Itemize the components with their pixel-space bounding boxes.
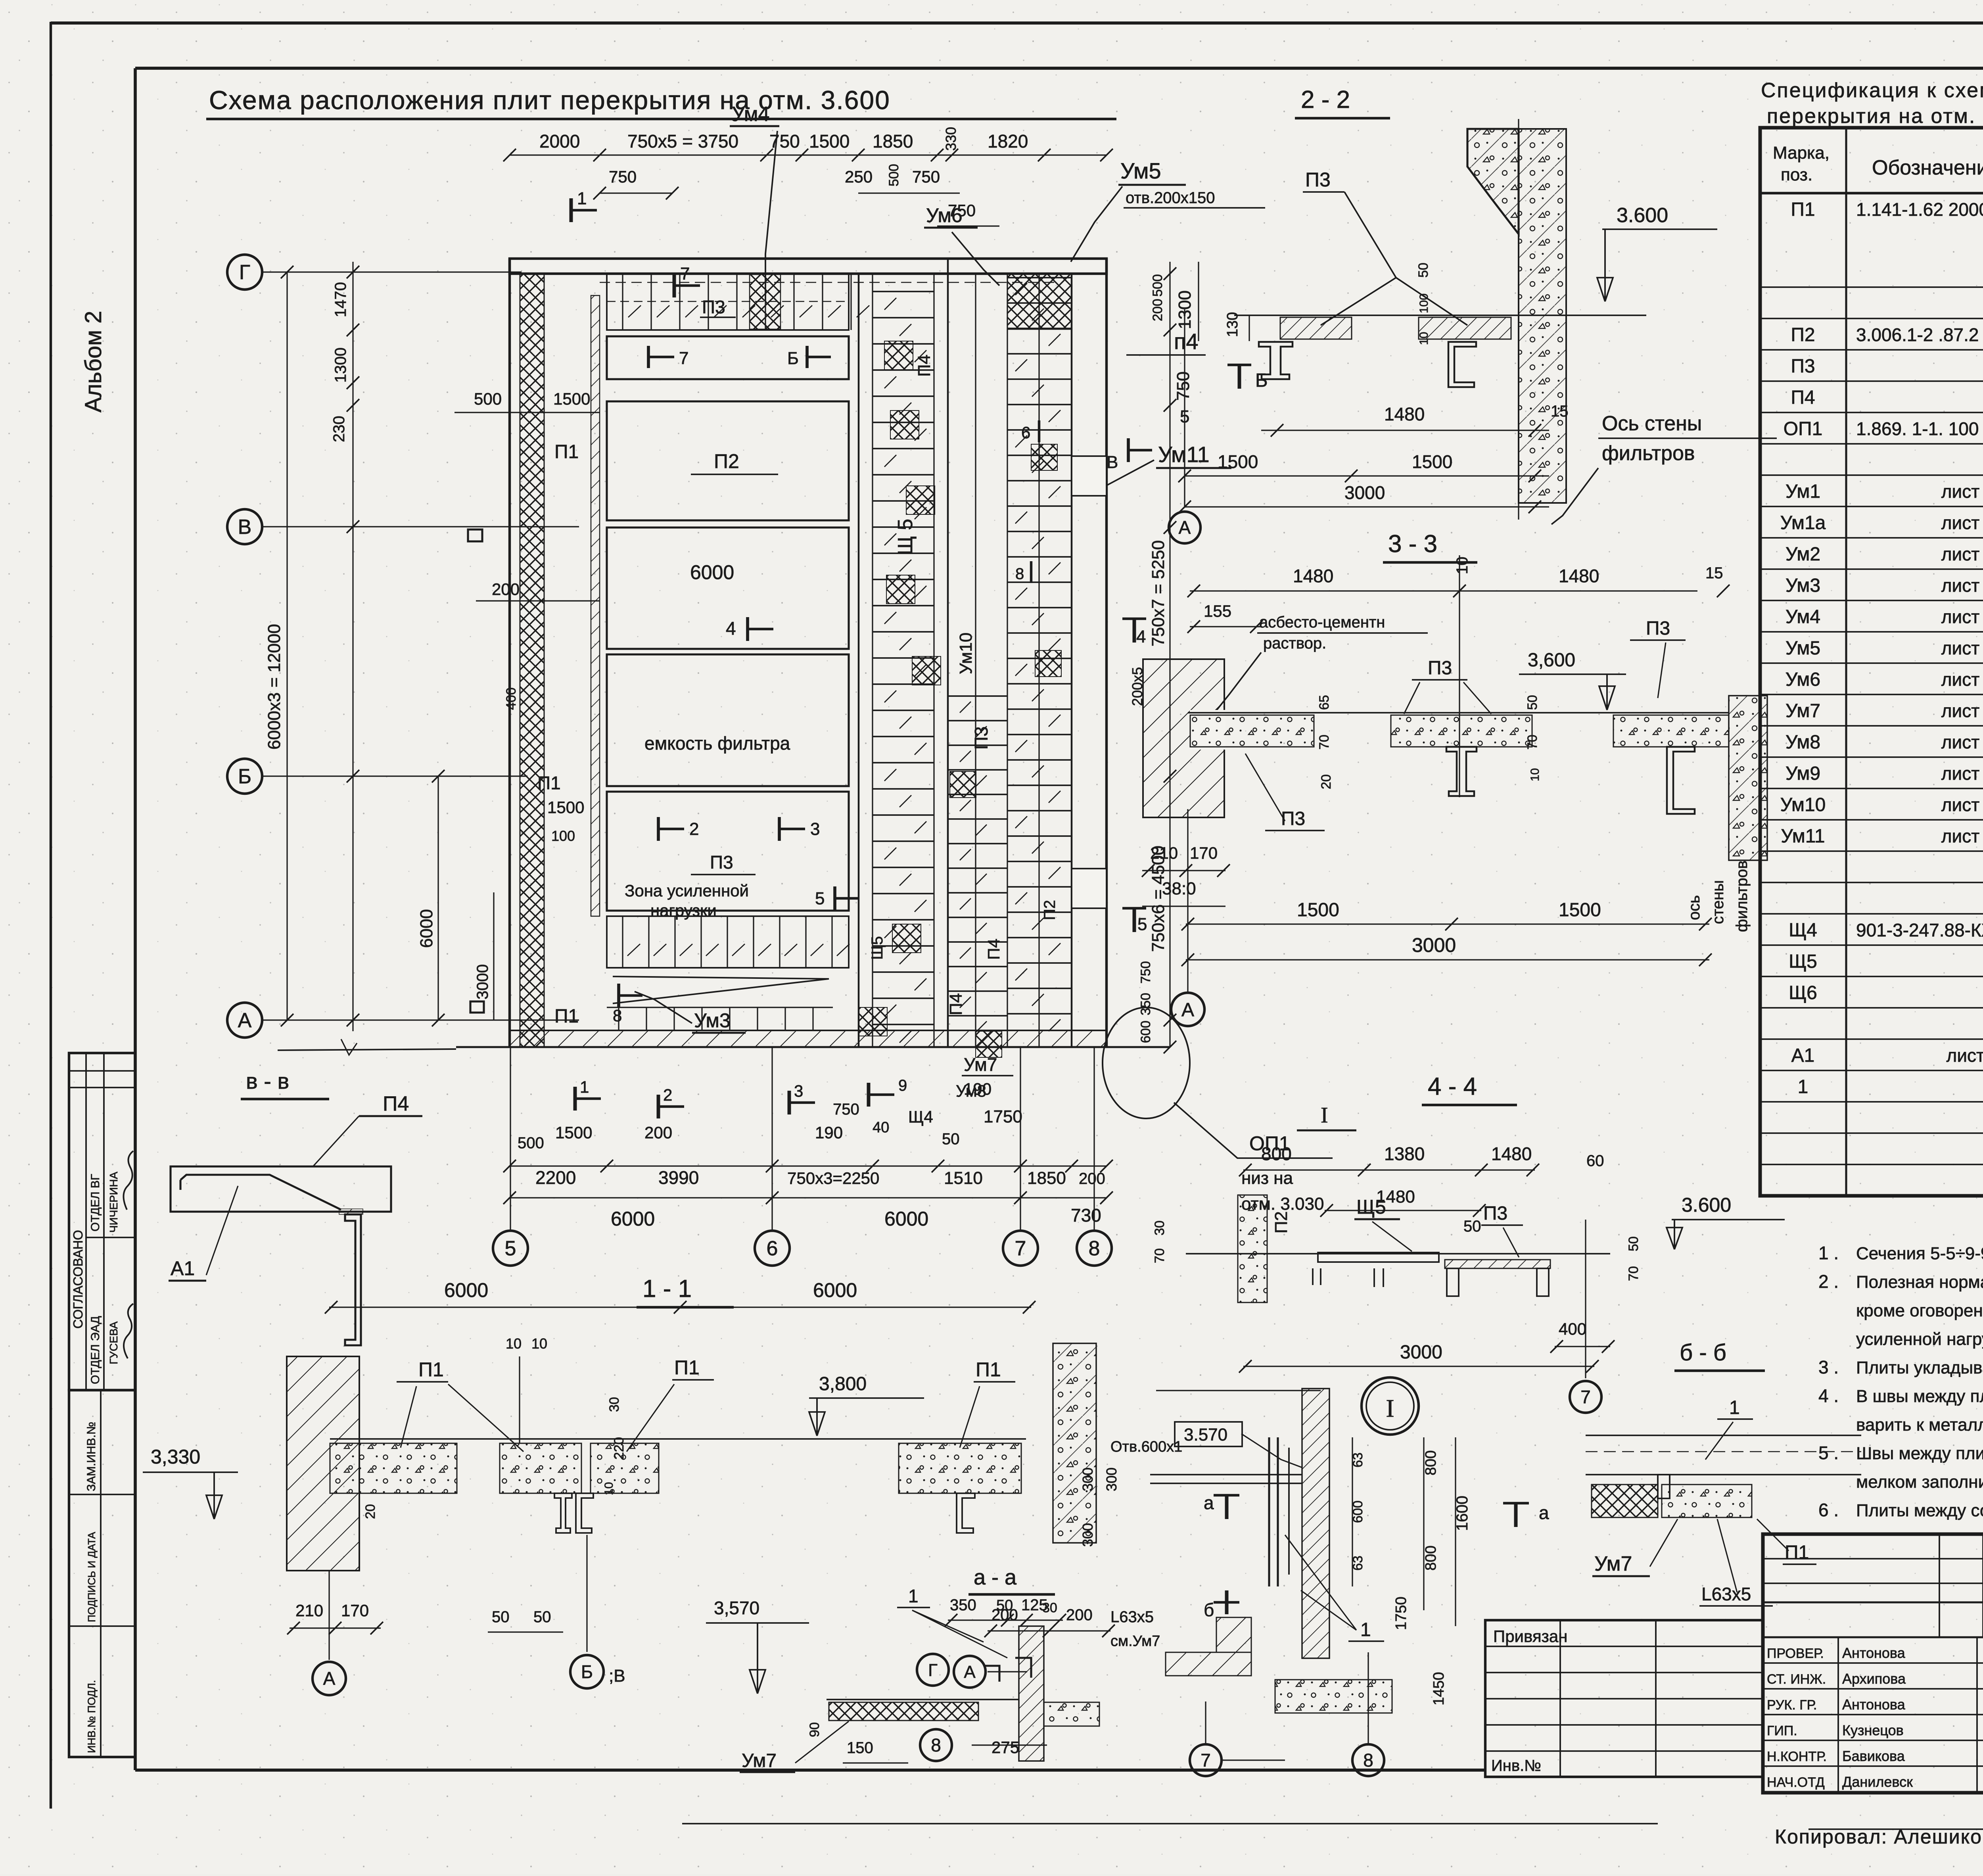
svg-text:а: а <box>1539 1502 1549 1523</box>
svg-text:Щ6: Щ6 <box>1789 982 1817 1003</box>
svg-text:Копировал: Алешикова: Копировал: Алешикова <box>1775 1826 1983 1848</box>
svg-text:поз.: поз. <box>1781 165 1812 184</box>
right strip xhatch patches <box>950 771 976 798</box>
svg-text:Ум9: Ум9 <box>1785 763 1820 784</box>
2-2 slab left <box>1280 317 1352 339</box>
svg-text:ПРОВЕР.: ПРОВЕР. <box>1767 1646 1824 1661</box>
svg-text:П1: П1 <box>418 1358 444 1381</box>
svg-text:210: 210 <box>1150 844 1178 862</box>
room box E <box>607 792 849 911</box>
2-2 channel beam <box>1448 342 1476 387</box>
svg-text:1500: 1500 <box>553 389 590 408</box>
1-1 beam right <box>957 1493 975 1533</box>
svg-text:5: 5 <box>505 1237 516 1260</box>
svg-text:Данилевск: Данилевск <box>1842 1774 1913 1790</box>
svg-text:1 - 1: 1 - 1 <box>642 1275 692 1302</box>
detail I mark a upper <box>1214 1494 1239 1496</box>
left dim chain line <box>352 262 353 1031</box>
svg-text:600: 600 <box>1138 1020 1153 1043</box>
svg-text:Ум7: Ум7 <box>742 1750 777 1771</box>
svg-text:155: 155 <box>1204 602 1231 620</box>
svg-text:70: 70 <box>1317 735 1332 750</box>
plan left wall hatch strip <box>520 274 544 1047</box>
svg-text:1470: 1470 <box>332 282 349 317</box>
svg-text:лист 40: лист 40 <box>1941 763 1983 784</box>
top strip xhatch patch <box>750 274 781 329</box>
2-2 dim chain 1480 <box>1261 430 1549 431</box>
svg-text:L63х5: L63х5 <box>1110 1608 1154 1626</box>
right substrip rungs lower <box>948 695 1007 697</box>
svg-text:Ум2: Ум2 <box>1785 544 1820 565</box>
leader Um5 <box>1071 186 1122 262</box>
ladder rungs <box>873 291 934 292</box>
1-1 slab seg4 <box>899 1443 1021 1493</box>
svg-text:3: 3 <box>810 819 820 839</box>
svg-text:200: 200 <box>1079 1170 1105 1187</box>
grid bubble 7 <box>1003 1231 1038 1266</box>
svg-text:стены: стены <box>1709 880 1727 924</box>
stamp soglasovano box <box>69 1053 135 1390</box>
svg-text:Антонова: Антонова <box>1842 1696 1906 1713</box>
svg-text:фильтров: фильтров <box>1733 861 1751 932</box>
svg-text:6000: 6000 <box>417 909 436 948</box>
svg-text:220: 220 <box>612 1437 627 1460</box>
4-4 axis line and bubble 7 <box>1585 1220 1586 1378</box>
svg-text:500: 500 <box>1150 274 1165 297</box>
svg-text:100: 100 <box>551 828 575 844</box>
svg-text:6: 6 <box>767 1237 778 1260</box>
svg-text:П3: П3 <box>702 297 725 317</box>
title block row2 line <box>1763 1636 1983 1638</box>
spec header underline <box>1764 99 1983 100</box>
svg-text:I: I <box>1321 1103 1328 1128</box>
detail I bottom slab band <box>1166 1652 1251 1676</box>
3-3 slab seg2 <box>1391 715 1532 747</box>
svg-text:А: А <box>323 1668 336 1689</box>
svg-text:3 - 3: 3 - 3 <box>1388 530 1437 558</box>
mark 7 in box A <box>648 356 674 358</box>
svg-text:1850: 1850 <box>1027 1168 1066 1188</box>
signature squiggle 1 <box>123 1151 133 1210</box>
leader OP1 <box>1174 1103 1333 1158</box>
1-1 slab seg3 <box>591 1443 659 1493</box>
right dim chain 1 <box>1169 262 1170 1047</box>
svg-text:Щ4: Щ4 <box>1789 920 1817 941</box>
svg-text:1300: 1300 <box>332 347 349 383</box>
svg-text:750: 750 <box>1138 961 1153 984</box>
svg-text:в - в: в - в <box>246 1068 289 1093</box>
svg-text:750х3=2250: 750х3=2250 <box>787 1169 879 1187</box>
svg-text:8: 8 <box>613 1006 622 1025</box>
svg-text:1: 1 <box>1798 1076 1808 1097</box>
svg-text:190: 190 <box>815 1123 843 1142</box>
svg-text:перекрытия на отм. 3. 600: перекрытия на отм. 3. 600 <box>1767 105 1983 128</box>
svg-text:Ум4: Ум4 <box>732 103 769 126</box>
svg-text:275: 275 <box>991 1738 1019 1757</box>
svg-text:Ум11: Ум11 <box>1158 442 1210 467</box>
svg-text:Б: Б <box>581 1661 593 1682</box>
grid bubble B <box>227 759 262 794</box>
svg-text:1: 1 <box>580 1078 589 1096</box>
grid bubble V <box>227 509 262 544</box>
a-a anchor bracket <box>984 1666 999 1682</box>
svg-text:10: 10 <box>506 1335 522 1352</box>
svg-text:2: 2 <box>663 1086 672 1104</box>
svg-text:8: 8 <box>931 1735 941 1755</box>
svg-text:1480: 1480 <box>1559 566 1599 586</box>
svg-text:200: 200 <box>1066 1606 1093 1624</box>
svg-text:Полезная нормативная нагру: Полезная нормативная нагрузка на перекры… <box>1856 1272 1983 1292</box>
svg-text:В швы между плитами заложит: В швы между плитами заложить анкера А1 и… <box>1856 1387 1983 1406</box>
svg-text:750: 750 <box>833 1101 859 1118</box>
grid bubble G <box>227 255 262 290</box>
title underline <box>206 118 1116 120</box>
svg-text:500: 500 <box>518 1134 544 1152</box>
grid axis 6 line <box>771 1047 773 1230</box>
svg-text:А1: А1 <box>171 1257 195 1279</box>
svg-text:230: 230 <box>330 416 348 442</box>
svg-text:7: 7 <box>1201 1750 1211 1770</box>
svg-text:лист 39: лист 39 <box>1941 512 1983 533</box>
detail I mark right <box>1297 1129 1356 1131</box>
grid axis line B <box>262 775 527 777</box>
svg-text:П2: П2 <box>1791 324 1815 345</box>
svg-text:Г: Г <box>239 261 250 284</box>
4-4 dim 3000 <box>1243 1366 1594 1367</box>
plan bottom wall <box>510 1030 1107 1047</box>
svg-text:50: 50 <box>1463 1218 1481 1235</box>
svg-text:Щ5: Щ5 <box>869 936 886 960</box>
svg-text:ЗАМ.ИНВ.№: ЗАМ.ИНВ.№ <box>85 1422 98 1491</box>
svg-text:2200: 2200 <box>535 1167 576 1188</box>
svg-text:ИНВ.№ ПОДЛ.: ИНВ.№ ПОДЛ. <box>86 1680 98 1753</box>
section mark 2 bottom <box>657 1095 660 1118</box>
svg-text:4 - 4: 4 - 4 <box>1428 1073 1477 1100</box>
v-v slab bar <box>171 1166 391 1212</box>
svg-text:П2: П2 <box>1041 900 1059 920</box>
1-1 bubble B V <box>586 1535 587 1652</box>
svg-text:Плиты между собой связать че: Плиты между собой связать через петли вя… <box>1856 1501 1983 1520</box>
1-1 left wall <box>287 1356 359 1571</box>
svg-text:5: 5 <box>1137 915 1147 934</box>
plan top wall inner dashed <box>600 282 1055 283</box>
svg-text:Инв.№: Инв.№ <box>1491 1757 1541 1774</box>
svg-text:1500: 1500 <box>809 131 850 152</box>
3-3 dim 3000 <box>1186 959 1709 960</box>
svg-text:П1: П1 <box>1791 199 1815 220</box>
svg-text:50: 50 <box>533 1608 551 1626</box>
inner frame top <box>135 67 1983 70</box>
svg-text:лист 39: лист 39 <box>1941 481 1983 502</box>
svg-text:П3: П3 <box>1483 1203 1507 1224</box>
svg-text:Альбом 2: Альбом 2 <box>81 311 106 412</box>
svg-text:Ось стены: Ось стены <box>1602 412 1702 435</box>
svg-text:Ум7: Ум7 <box>1594 1552 1632 1575</box>
svg-text:3,800: 3,800 <box>819 1373 867 1395</box>
svg-text:емкость фильтра: емкость фильтра <box>644 733 790 754</box>
3-3 axis bubble A <box>1187 809 1188 992</box>
2-2 dim chain 3000 <box>1185 506 1549 507</box>
2-2 concrete wall <box>1519 129 1566 503</box>
svg-text:3000: 3000 <box>1344 482 1385 503</box>
svg-text:2000: 2000 <box>539 131 580 152</box>
2-2 slab top line <box>1234 315 1646 316</box>
svg-text:200: 200 <box>492 580 520 598</box>
svg-text:2: 2 <box>689 819 699 839</box>
2-2 slab right <box>1419 317 1511 339</box>
svg-text:350: 350 <box>1138 993 1153 1015</box>
svg-text:Б: Б <box>1255 370 1268 391</box>
svg-text:50: 50 <box>492 1608 510 1626</box>
svg-text:20: 20 <box>1319 774 1334 789</box>
svg-text:4: 4 <box>1136 627 1146 646</box>
svg-text:Ум8: Ум8 <box>1785 732 1820 753</box>
signature squiggle 2 <box>124 1304 133 1358</box>
svg-text:1480: 1480 <box>1491 1143 1532 1164</box>
svg-text:6000х3 = 12000: 6000х3 = 12000 <box>265 624 284 750</box>
2-2 axis bubble A <box>1184 309 1185 508</box>
svg-text:15: 15 <box>1705 564 1723 582</box>
svg-text:800: 800 <box>1261 1143 1292 1164</box>
svg-text:лист 39: лист 39 <box>1941 826 1983 846</box>
bottom sub chain <box>510 1122 1107 1123</box>
top dim chain main <box>510 154 1107 155</box>
svg-text:кроме оговоренной зоны, —: кроме оговоренной зоны, — 3,92 к Па , в … <box>1856 1301 1983 1320</box>
a-a xhatch band Um7 <box>829 1702 978 1721</box>
svg-text:50: 50 <box>1416 263 1431 278</box>
svg-text:8: 8 <box>1089 1237 1100 1260</box>
svg-text:1480: 1480 <box>1384 404 1425 424</box>
svg-text:Ум1а: Ум1а <box>1780 512 1826 533</box>
svg-text:8: 8 <box>1363 1750 1373 1770</box>
svg-text:500: 500 <box>886 164 901 186</box>
svg-text:6000: 6000 <box>690 561 734 583</box>
detail I slab lines <box>1150 1474 1302 1475</box>
spec table column lines <box>1845 128 1847 1196</box>
4-4 slab P3 band <box>1445 1260 1550 1268</box>
svg-text:Ум7: Ум7 <box>964 1054 997 1075</box>
svg-text:а - а: а - а <box>974 1565 1017 1589</box>
svg-text:лист 40: лист 40 <box>1941 669 1983 690</box>
svg-text:;В: ;В <box>609 1666 625 1686</box>
svg-text:отв.200х150: отв.200х150 <box>1126 189 1215 207</box>
svg-text:3 .: 3 . <box>1818 1357 1839 1377</box>
svg-text:ОТДЕЛ ЭАД: ОТДЕЛ ЭАД <box>89 1316 102 1384</box>
svg-text:П4: П4 <box>915 355 934 377</box>
leader Um4 <box>765 131 777 301</box>
svg-text:300: 300 <box>1103 1467 1120 1491</box>
svg-text:3.600: 3.600 <box>1682 1194 1731 1216</box>
svg-text:асбесто-цементн: асбесто-цементн <box>1259 614 1385 631</box>
svg-text:П1: П1 <box>554 1006 579 1027</box>
b-b concrete patch <box>1662 1485 1752 1517</box>
svg-text:низ на: низ на <box>1241 1168 1293 1188</box>
4-4 slab top line <box>1186 1253 1610 1255</box>
svg-text:400: 400 <box>504 687 519 710</box>
svg-text:РУК. ГР.: РУК. ГР. <box>1767 1698 1817 1713</box>
svg-text:Ум4: Ум4 <box>1785 606 1820 627</box>
svg-text:раствор.: раствор. <box>1263 635 1326 652</box>
svg-text:мелком заполнителе.: мелком заполнителе. <box>1856 1472 1983 1492</box>
2-2 I-beam <box>1259 342 1293 379</box>
svg-text:8: 8 <box>1015 565 1024 583</box>
svg-text:Ум6: Ум6 <box>926 204 963 226</box>
v-v channel <box>345 1214 361 1345</box>
room box B P2 <box>607 401 849 520</box>
svg-text:П3: П3 <box>1281 808 1305 829</box>
svg-text:1: 1 <box>908 1586 919 1606</box>
b-b xhatch patch <box>1592 1485 1658 1517</box>
svg-text:П1: П1 <box>674 1356 700 1379</box>
svg-text:ОП1: ОП1 <box>1784 418 1823 439</box>
svg-text:1750: 1750 <box>984 1107 1022 1126</box>
svg-text:1: 1 <box>1729 1397 1740 1418</box>
bottom chain row3 <box>510 1197 1107 1198</box>
svg-text:750: 750 <box>769 131 800 152</box>
svg-text:П3: П3 <box>971 726 991 750</box>
3-3 slab seg3 <box>1613 715 1729 747</box>
detail I bubbles 7 8 <box>1205 1701 1206 1743</box>
3-3 left wall slab notch <box>1190 710 1225 750</box>
svg-text:Г: Г <box>928 1660 938 1680</box>
svg-text:7: 7 <box>679 349 688 368</box>
svg-text:150: 150 <box>847 1739 873 1757</box>
svg-text:10: 10 <box>602 1482 616 1495</box>
svg-text:Архипова: Архипова <box>1842 1671 1906 1687</box>
grid axis line G <box>262 271 522 272</box>
svg-text:ЧИЧЕРИНА: ЧИЧЕРИНА <box>107 1172 120 1233</box>
svg-text:лист 40: лист 40 <box>1941 732 1983 752</box>
svg-text:3: 3 <box>794 1082 803 1100</box>
svg-text:В: В <box>238 516 252 539</box>
svg-text:Ум3: Ум3 <box>694 1009 731 1032</box>
3-3 channel right <box>1667 747 1695 814</box>
svg-text:ОТДЕЛ ВГ: ОТДЕЛ ВГ <box>89 1174 102 1231</box>
plan bottom edge extension left <box>278 1049 456 1050</box>
grid bubble A <box>227 1003 262 1038</box>
svg-text:А: А <box>964 1662 976 1682</box>
plan top-right xhatch patch <box>1007 274 1072 329</box>
svg-text:Обозначение: Обозначение <box>1872 156 1983 179</box>
section mark 4 right <box>1122 618 1146 620</box>
grid bubble 8 <box>1077 1231 1112 1266</box>
svg-text:3,570: 3,570 <box>714 1598 759 1618</box>
svg-text:L63х5: L63х5 <box>1701 1584 1751 1604</box>
svg-text:А: А <box>238 1009 252 1032</box>
svg-text:НАЧ.ОТД: НАЧ.ОТД <box>1767 1775 1825 1790</box>
b-b slab top dashed <box>1586 1435 1861 1436</box>
svg-text:I: I <box>1386 1394 1394 1422</box>
svg-text:Зона усиленной: Зона усиленной <box>625 881 749 900</box>
svg-text:800: 800 <box>1423 1546 1439 1571</box>
svg-text:Бавикова: Бавикова <box>1842 1748 1905 1764</box>
1-1 bubble A left <box>328 1571 330 1660</box>
room box D filter tank <box>607 654 849 786</box>
svg-text:4: 4 <box>726 618 736 639</box>
svg-text:10: 10 <box>1454 557 1471 575</box>
detail I mark b lower <box>1214 1601 1239 1604</box>
svg-text:1500: 1500 <box>1297 900 1339 921</box>
svg-text:1500: 1500 <box>1559 900 1601 921</box>
inner frame left <box>134 68 137 1770</box>
2-2 concrete wedge <box>1467 129 1519 234</box>
leader Um11 <box>1071 460 1154 496</box>
svg-text:70: 70 <box>1626 1266 1641 1281</box>
svg-text:170: 170 <box>341 1601 369 1620</box>
1-1 slab top line <box>330 1438 1026 1440</box>
svg-text:1 .: 1 . <box>1818 1243 1839 1263</box>
svg-text:Б: Б <box>787 349 799 368</box>
svg-text:варить к металлическим балка: варить к металлическим балкам (см. сеч. … <box>1856 1415 1983 1435</box>
svg-text:50: 50 <box>942 1130 960 1148</box>
svg-text:38:0: 38:0 <box>1162 879 1196 898</box>
svg-text:1750: 1750 <box>1393 1596 1410 1630</box>
svg-text:П4: П4 <box>383 1092 409 1115</box>
fold mark line lower <box>682 1823 1658 1824</box>
plan left wall inner line <box>509 274 510 1047</box>
svg-text:а: а <box>1204 1492 1214 1513</box>
svg-text:Ум10: Ум10 <box>956 633 976 674</box>
spec table header row line <box>1760 192 1983 194</box>
svg-text:лист 40: лист 40 <box>1941 638 1983 658</box>
svg-text:Ум6: Ум6 <box>1785 669 1820 690</box>
svg-text:П1: П1 <box>554 441 579 462</box>
svg-text:50: 50 <box>1626 1236 1641 1251</box>
svg-text:1820: 1820 <box>988 131 1028 152</box>
svg-text:1480: 1480 <box>1293 566 1333 586</box>
4-4 dim 1480 sub <box>1325 1210 1481 1211</box>
ladder strip verticals <box>858 274 859 1047</box>
svg-text:10: 10 <box>1528 768 1542 781</box>
svg-text:1.141-1.62 2000-06: 1.141-1.62 2000-06 <box>1856 199 1983 220</box>
grid axis line A <box>262 1019 579 1020</box>
detail I hatch square <box>1216 1617 1251 1652</box>
a-a bubble 8 <box>972 1744 1047 1746</box>
room box A <box>607 336 849 379</box>
svg-text:СОГЛАСОВАНО: СОГЛАСОВАНО <box>71 1230 85 1329</box>
svg-text:Марка,: Марка, <box>1773 143 1830 163</box>
svg-text:30: 30 <box>1152 1220 1167 1235</box>
svg-text:1500: 1500 <box>1218 451 1258 472</box>
1-1 beams mid <box>554 1493 572 1533</box>
svg-text:ось: ось <box>1686 895 1703 920</box>
stamp lower box <box>69 1390 135 1757</box>
plan right wall <box>1105 259 1108 1047</box>
svg-text:3990: 3990 <box>658 1167 699 1188</box>
svg-text:Щ5: Щ5 <box>1356 1196 1386 1218</box>
svg-text:800: 800 <box>1423 1450 1439 1475</box>
title block attach grid <box>1485 1620 1763 1777</box>
svg-text:9: 9 <box>898 1077 907 1094</box>
svg-text:5: 5 <box>815 889 825 908</box>
4-4 top dims <box>1243 1169 1535 1170</box>
svg-text:750: 750 <box>609 167 637 186</box>
svg-text:200: 200 <box>644 1123 672 1142</box>
section mark 7 top <box>673 274 676 297</box>
detail I leaders <box>1241 1434 1302 1467</box>
left dim chain 2 <box>286 272 288 1020</box>
svg-text:3000: 3000 <box>474 964 491 999</box>
svg-text:750: 750 <box>1174 372 1193 401</box>
mark 3 in box E <box>778 817 781 841</box>
svg-text:П4: П4 <box>1791 387 1815 408</box>
svg-text:ПОДПИСЬ И ДАТА: ПОДПИСЬ И ДАТА <box>86 1532 98 1622</box>
svg-text:20: 20 <box>363 1504 378 1519</box>
svg-text:210: 210 <box>295 1601 323 1620</box>
svg-text:лист 40: лист 40 <box>1941 700 1983 721</box>
svg-text:лист 39: лист 39 <box>1941 575 1983 596</box>
svg-text:100: 100 <box>1417 293 1431 313</box>
